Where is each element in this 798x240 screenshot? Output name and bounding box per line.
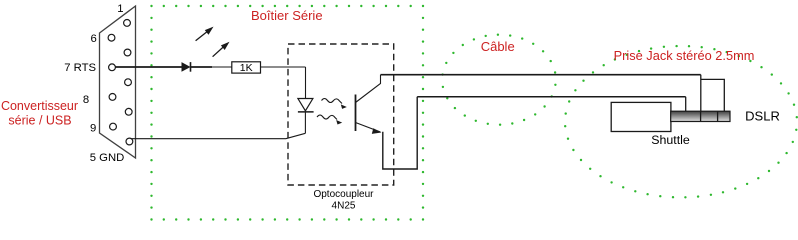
svg-text:Optocoupleur: Optocoupleur xyxy=(313,189,374,200)
pin 8 xyxy=(109,94,116,101)
svg-text:DSLR: DSLR xyxy=(745,109,780,124)
svg-text:Prise Jack stéréo 2.5mm: Prise Jack stéréo 2.5mm xyxy=(614,48,755,63)
svg-text:Shuttle: Shuttle xyxy=(651,133,690,147)
optocoupler dashed box U1 xyxy=(288,44,394,185)
svg-text:série / USB: série / USB xyxy=(8,114,71,128)
green dotted box Boitier Serie xyxy=(150,5,424,221)
pin 2 xyxy=(124,49,131,56)
jack ring separator 1 xyxy=(700,111,702,121)
wire diode to resistor xyxy=(191,66,213,68)
diode D1 xyxy=(182,62,191,72)
wire LED cathode down and to pin5 xyxy=(304,112,306,133)
jack plug bar xyxy=(671,111,730,121)
wire drop top conductor into jack xyxy=(700,75,702,112)
wire resistor to opto LED xyxy=(261,66,306,68)
phototransistor Q1 base bar xyxy=(355,95,357,132)
pin 5 xyxy=(126,138,133,145)
collector xyxy=(356,75,381,103)
svg-text:1K: 1K xyxy=(240,62,253,74)
Shuttle box xyxy=(611,102,671,131)
green dotted ellipse Prise Jack xyxy=(564,45,798,199)
svg-text:1: 1 xyxy=(117,3,123,15)
jack upper contact rectangle xyxy=(701,79,725,111)
pin 3 xyxy=(125,79,132,86)
svg-text:Boîtier Série: Boîtier Série xyxy=(251,8,323,23)
svg-text:4N25: 4N25 xyxy=(332,200,356,211)
pin 1 xyxy=(124,20,131,27)
wire pin7 to diode xyxy=(115,66,182,68)
svg-text:Convertisseur: Convertisseur xyxy=(1,99,78,113)
pin 7 xyxy=(109,64,116,71)
emitter with arrow xyxy=(356,123,381,133)
connector DB9 body xyxy=(100,6,136,158)
svg-text:9: 9 xyxy=(90,123,96,135)
photon arrow 1 xyxy=(322,99,343,104)
pin 6 xyxy=(108,34,115,41)
wire drop bottom conductor into jack xyxy=(685,97,687,111)
LED emission arrow 1 xyxy=(196,30,210,41)
svg-text:8: 8 xyxy=(83,94,89,106)
cable conductor top (collector to jack) xyxy=(381,74,701,76)
emitter wire down-right-up xyxy=(383,97,417,169)
svg-text:Câble: Câble xyxy=(481,39,515,54)
opto LED xyxy=(298,99,313,111)
green dotted ellipse Cable xyxy=(441,34,556,126)
LED emission arrow 2 xyxy=(213,45,226,57)
cable conductor bottom (emitter to jack) xyxy=(417,96,686,98)
resistor R1 1K xyxy=(232,62,261,73)
pin 9 xyxy=(110,123,117,130)
svg-text:7 RTS: 7 RTS xyxy=(64,62,96,74)
svg-text:6: 6 xyxy=(91,33,97,45)
jack ring separator 2 xyxy=(717,111,719,121)
svg-text:5 GND: 5 GND xyxy=(90,152,125,164)
pin 4 xyxy=(125,108,132,115)
photon arrow 2 xyxy=(317,115,337,120)
